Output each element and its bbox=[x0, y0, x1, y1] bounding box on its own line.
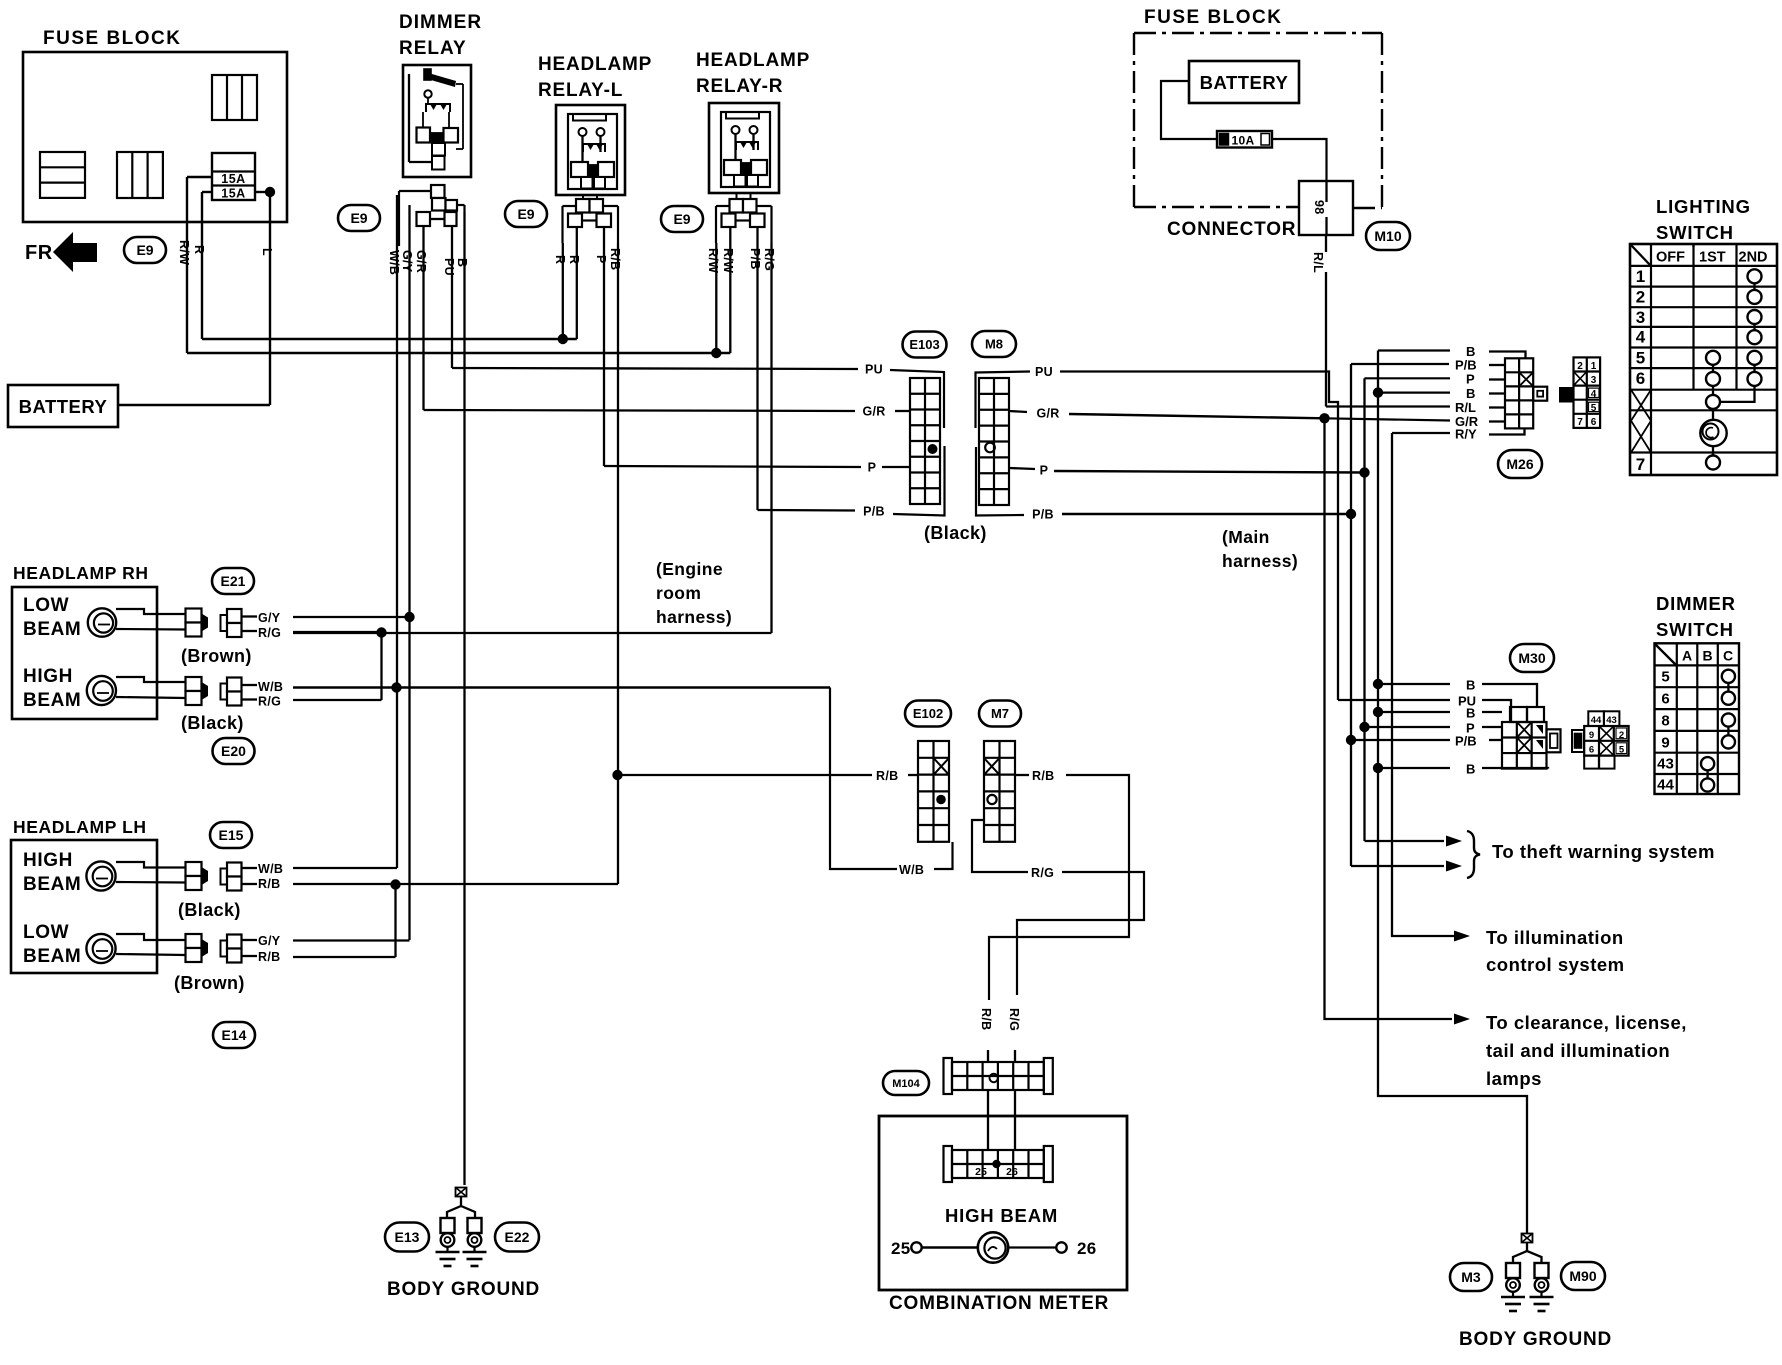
svg-text:W/B: W/B bbox=[899, 863, 924, 877]
connector E13 oval bbox=[385, 1223, 429, 1252]
connector LH low (Brown) bbox=[221, 935, 258, 963]
svg-text:R/B: R/B bbox=[979, 1008, 993, 1030]
svg-text:P: P bbox=[1466, 372, 1475, 387]
svg-text:(Black): (Black) bbox=[924, 523, 987, 543]
svg-text:6: 6 bbox=[1589, 745, 1594, 756]
svg-text:43: 43 bbox=[1657, 756, 1674, 773]
headlamp RH box bbox=[12, 587, 157, 719]
svg-text:E103: E103 bbox=[909, 337, 939, 352]
headlamp relay-R connector bbox=[716, 193, 772, 243]
connector E14 oval bbox=[213, 1022, 255, 1048]
svg-text:G/R: G/R bbox=[1036, 407, 1059, 421]
connector M6 grid bbox=[979, 378, 1009, 505]
connector M8 oval bbox=[972, 331, 1016, 357]
wire P/B vertical (M26 to theft warning) bbox=[1350, 364, 1352, 866]
svg-text:HEADLAMP: HEADLAMP bbox=[696, 50, 810, 71]
connector E103 oval bbox=[903, 332, 947, 358]
svg-text:control system: control system bbox=[1486, 954, 1625, 975]
lighting switch table bbox=[1630, 244, 1777, 475]
junction P/B 740 bbox=[1346, 735, 1356, 745]
wire R/G: M7 to combination meter bbox=[972, 820, 1144, 995]
svg-text:SWITCH: SWITCH bbox=[1656, 222, 1734, 243]
FR direction arrow bbox=[25, 232, 97, 272]
wire R/W: relay-R pin 1 bbox=[715, 243, 717, 353]
svg-text:To theft warning system: To theft warning system bbox=[1492, 841, 1715, 862]
M6 PU bracket bbox=[976, 372, 1031, 429]
M26 mating connector tab (black) bbox=[1560, 388, 1574, 402]
wire labels R R (relay-L) bbox=[553, 255, 581, 264]
svg-text:6: 6 bbox=[1591, 417, 1597, 428]
svg-text:DIMMER: DIMMER bbox=[399, 12, 482, 33]
bulb LH low beam bbox=[86, 934, 185, 963]
dimmer relay label bbox=[399, 12, 482, 59]
dimmer relay box bbox=[403, 65, 471, 177]
CONNECTOR label bbox=[1167, 219, 1296, 240]
svg-text:E14: E14 bbox=[222, 1027, 247, 1043]
lighting switch label bbox=[1656, 196, 1751, 243]
lighting switch row numbers bbox=[1636, 267, 1646, 474]
(Main harness) note bbox=[1222, 527, 1298, 571]
wire W/B LH high bbox=[293, 867, 397, 869]
svg-text:FUSE BLOCK: FUSE BLOCK bbox=[43, 28, 182, 49]
svg-text:A: A bbox=[1682, 648, 1692, 664]
wire P: M6 to M26/M30 bbox=[1054, 471, 1365, 473]
ground fork (right) bbox=[1513, 1251, 1542, 1263]
svg-text:To illumination: To illumination bbox=[1486, 927, 1624, 948]
M104 keyway circle bbox=[990, 1074, 998, 1082]
wire R/G: relay-R to headlamps bbox=[293, 243, 772, 633]
svg-text:R/L: R/L bbox=[1311, 252, 1325, 273]
(Brown) label RH bbox=[181, 646, 252, 666]
wire labels G/Y R/B (LH low) bbox=[258, 934, 281, 964]
wire G/R: M6 to M26 bbox=[1069, 414, 1325, 418]
M26 side tab bbox=[1533, 387, 1547, 401]
svg-text:HIGH BEAM: HIGH BEAM bbox=[945, 1205, 1058, 1226]
ground bolt right (E22 side) bbox=[463, 1218, 487, 1266]
svg-text:E9: E9 bbox=[136, 242, 153, 258]
connector E15 oval bbox=[210, 822, 252, 848]
svg-text:M104: M104 bbox=[892, 1078, 920, 1090]
junction R/G RH bbox=[376, 627, 386, 637]
dimmer switch row labels bbox=[1657, 669, 1674, 794]
wire R/B stub into E102 bbox=[908, 774, 918, 776]
(Black) label LH bbox=[178, 900, 241, 920]
svg-text:RELAY: RELAY bbox=[399, 38, 467, 59]
svg-text:P/B: P/B bbox=[1032, 508, 1054, 522]
ground fork (left) bbox=[447, 1206, 475, 1218]
svg-text:E9: E9 bbox=[517, 206, 534, 222]
svg-text:1: 1 bbox=[1636, 267, 1645, 286]
wire W/B: dimmer relay pin down bbox=[396, 195, 398, 868]
bulb RH low beam bbox=[88, 608, 185, 636]
headlamp LH high beam text bbox=[23, 850, 81, 895]
svg-text:R/G: R/G bbox=[258, 695, 281, 709]
wire to theft warning (from P/B) bbox=[1351, 861, 1462, 872]
svg-text:DIMMER: DIMMER bbox=[1656, 593, 1736, 614]
svg-text:B: B bbox=[1466, 706, 1475, 721]
connector E21 oval bbox=[212, 568, 254, 594]
dimmer switch contacts C bbox=[1722, 670, 1735, 749]
svg-text:BODY GROUND: BODY GROUND bbox=[387, 1279, 540, 1300]
svg-text:43: 43 bbox=[1606, 715, 1617, 726]
connector E22 oval bbox=[495, 1223, 539, 1252]
M6 P/B bracket bbox=[976, 447, 1024, 516]
svg-text:To clearance, license,: To clearance, license, bbox=[1486, 1012, 1687, 1033]
svg-text:3: 3 bbox=[1636, 308, 1645, 327]
wire label L bbox=[260, 248, 274, 256]
svg-text:G/Y: G/Y bbox=[258, 934, 281, 948]
svg-text:1: 1 bbox=[1591, 361, 1597, 372]
svg-text:2ND: 2ND bbox=[1739, 250, 1768, 266]
svg-text:(Brown): (Brown) bbox=[181, 646, 252, 666]
svg-text:(Black): (Black) bbox=[181, 713, 244, 733]
svg-text:PU: PU bbox=[442, 258, 456, 276]
headlamp relay-R box bbox=[709, 103, 779, 193]
svg-text:G/Y: G/Y bbox=[258, 611, 281, 625]
svg-text:(Main: (Main bbox=[1222, 527, 1270, 547]
wire G/R branch: to clearance lamps bbox=[1325, 418, 1453, 1019]
svg-text:B: B bbox=[1702, 648, 1712, 664]
svg-text:HEADLAMP: HEADLAMP bbox=[538, 54, 652, 75]
junction P 727 bbox=[1359, 722, 1369, 732]
wire P: relay-L to E103 bbox=[604, 228, 861, 467]
svg-text:C: C bbox=[1723, 648, 1733, 664]
wires into meter connector bbox=[988, 1090, 1015, 1150]
svg-text:M30: M30 bbox=[1518, 650, 1545, 666]
svg-text:P/B: P/B bbox=[1455, 734, 1477, 749]
wire label W/B (dimmer) bbox=[387, 250, 401, 275]
svg-text:R/W: R/W bbox=[177, 240, 191, 265]
svg-text:4: 4 bbox=[1636, 328, 1646, 347]
svg-text:44: 44 bbox=[1657, 777, 1674, 794]
svg-text:G/Y: G/Y bbox=[400, 250, 414, 273]
E103 PU bracket bbox=[890, 370, 944, 428]
svg-text:5: 5 bbox=[1636, 349, 1645, 368]
svg-text:3: 3 bbox=[1591, 375, 1597, 386]
dimmer relay connector bbox=[399, 185, 465, 246]
wire label P (relay-L) bbox=[594, 255, 608, 264]
fuse block (engine compartment) label bbox=[43, 28, 182, 49]
svg-text:P: P bbox=[594, 255, 608, 264]
svg-text:5: 5 bbox=[1661, 669, 1669, 686]
connector M26 grid bbox=[1505, 358, 1533, 428]
svg-text:15A: 15A bbox=[221, 187, 245, 201]
wire R/G into M104 bbox=[1014, 1050, 1016, 1062]
svg-text:P/B: P/B bbox=[863, 505, 885, 519]
wire label PU (dimmer) bbox=[442, 258, 456, 276]
wire B (row1) to M26 bbox=[1378, 344, 1526, 359]
svg-text:LOW: LOW bbox=[23, 595, 69, 616]
wire B vertical (M26 to body ground) bbox=[1378, 351, 1527, 1234]
svg-text:R/L: R/L bbox=[1455, 400, 1476, 415]
svg-text:44: 44 bbox=[1591, 715, 1602, 726]
ground bolt (M90 side) bbox=[1530, 1263, 1554, 1311]
fuse symbol (3-slot, middle) bbox=[117, 152, 163, 198]
wire label P (E103) bbox=[866, 459, 910, 474]
wire R/B LH high (to relay R/B) bbox=[293, 883, 618, 885]
connector E102 grid bbox=[918, 741, 949, 842]
svg-text:B: B bbox=[455, 258, 469, 267]
svg-text:RELAY-R: RELAY-R bbox=[696, 76, 783, 97]
svg-text:BATTERY: BATTERY bbox=[19, 396, 108, 417]
wire R/L: connector to M26 bbox=[1326, 235, 1450, 407]
connector E102 oval bbox=[905, 701, 951, 727]
junction P at M6 row bbox=[1359, 467, 1369, 477]
svg-text:7: 7 bbox=[1636, 455, 1645, 474]
svg-text:L: L bbox=[260, 248, 274, 256]
svg-text:R/B: R/B bbox=[608, 248, 622, 270]
svg-text:R/Y: R/Y bbox=[1455, 427, 1477, 442]
svg-text:7: 7 bbox=[1577, 417, 1583, 428]
connector E103 grid bbox=[910, 378, 940, 504]
wire label R/G (meter) bbox=[1007, 1008, 1021, 1031]
svg-text:8: 8 bbox=[1661, 713, 1669, 730]
svg-text:P/B: P/B bbox=[748, 248, 762, 270]
headlamp LH box bbox=[11, 840, 157, 973]
socket LH high bbox=[186, 862, 209, 890]
wire W/B into E102 bbox=[934, 842, 953, 869]
svg-text:R: R bbox=[553, 255, 567, 264]
svg-text:R/B: R/B bbox=[1032, 769, 1054, 783]
svg-text:harness): harness) bbox=[1222, 551, 1298, 571]
wire P to M26 bbox=[1365, 372, 1506, 387]
combination meter box bbox=[879, 1116, 1127, 1290]
fuse symbol (3-row, left) bbox=[40, 152, 85, 198]
svg-text:BEAM: BEAM bbox=[23, 619, 81, 640]
wire labels W/B R/B (LH high) bbox=[258, 862, 283, 891]
bulb LH high beam bbox=[86, 861, 185, 890]
junction G/R branch bbox=[1319, 413, 1329, 423]
wire stub fuse to L node bbox=[255, 191, 270, 193]
wire P/B to M30 bbox=[1351, 734, 1502, 749]
headlamp relay-L connector bbox=[563, 195, 619, 243]
fuse 15A / 15A bbox=[212, 153, 255, 201]
wire G/Y RH low bbox=[293, 616, 410, 618]
high beam indicator lamp bbox=[891, 1232, 1097, 1262]
M26 X key bbox=[1519, 372, 1533, 386]
meter connector pins 25 26 bbox=[975, 1160, 1018, 1178]
svg-text:M7: M7 bbox=[991, 706, 1009, 721]
svg-text:R: R bbox=[567, 255, 581, 264]
wire R/Y vertical (M26 to illumination) bbox=[1392, 433, 1456, 936]
wire R/W: fuse to headlamp relay-R bbox=[187, 177, 730, 353]
svg-text:BEAM: BEAM bbox=[23, 690, 81, 711]
wire R/G RH high branch bbox=[293, 632, 382, 700]
connector E20 oval bbox=[213, 738, 255, 764]
svg-text:HEADLAMP RH: HEADLAMP RH bbox=[13, 563, 149, 583]
fuse block (cabin) label bbox=[1144, 7, 1283, 28]
(Brown) label LH bbox=[174, 973, 245, 993]
svg-text:M26: M26 bbox=[1506, 456, 1533, 472]
E102 keyway dot bbox=[936, 795, 946, 805]
wire PU to M30 bbox=[1338, 694, 1511, 723]
svg-text:R: R bbox=[192, 245, 206, 254]
wire B to M30 (row B 684) bbox=[1378, 678, 1537, 708]
svg-text:BEAM: BEAM bbox=[23, 946, 81, 967]
wire label P/B (M6) bbox=[1029, 506, 1056, 521]
svg-text:(Brown): (Brown) bbox=[174, 973, 245, 993]
svg-text:HIGH: HIGH bbox=[23, 850, 73, 871]
wire labels W/B R/G (RH high) bbox=[258, 680, 283, 709]
wire label R/B (meter) bbox=[979, 1008, 993, 1030]
svg-text:9: 9 bbox=[1589, 730, 1594, 741]
svg-text:R/B: R/B bbox=[258, 877, 280, 891]
HIGH BEAM label bbox=[945, 1205, 1058, 1226]
svg-text:98: 98 bbox=[1312, 200, 1326, 215]
svg-text:OFF: OFF bbox=[1656, 250, 1685, 266]
svg-text:E102: E102 bbox=[913, 706, 943, 721]
wire R/B LH low branch bbox=[293, 885, 396, 958]
wire P vertical (M26 to theft warning) bbox=[1363, 378, 1365, 841]
wire label PU (M6) bbox=[1034, 364, 1054, 379]
svg-text:9: 9 bbox=[1661, 735, 1669, 752]
junction: R at relay-L bbox=[558, 334, 568, 344]
svg-text:BODY GROUND: BODY GROUND bbox=[1459, 1329, 1612, 1350]
svg-text:E13: E13 bbox=[395, 1229, 420, 1245]
svg-text:W/B: W/B bbox=[387, 250, 401, 275]
connector M30 oval bbox=[1510, 644, 1554, 672]
M26 mating connector grid bbox=[1574, 357, 1601, 428]
wire label B (dimmer) bbox=[455, 258, 469, 267]
wire B to M30 (row B 768) bbox=[1378, 762, 1548, 777]
svg-text:(Engine: (Engine bbox=[656, 559, 723, 579]
wire R/G RH low (to main R/G) bbox=[293, 631, 382, 633]
wire P to M30 bbox=[1365, 721, 1503, 736]
connector RH low (Brown) bbox=[221, 609, 258, 637]
E103 keyway dot bbox=[928, 444, 938, 454]
junction B 712 bbox=[1373, 707, 1383, 717]
svg-text:SWITCH: SWITCH bbox=[1656, 619, 1734, 640]
wire label R/B (E102) bbox=[876, 769, 898, 783]
svg-text:26: 26 bbox=[1006, 1166, 1018, 1178]
svg-text:M8: M8 bbox=[985, 337, 1003, 352]
connector M7 oval bbox=[979, 701, 1021, 727]
BODY GROUND label (right) bbox=[1459, 1329, 1612, 1350]
connector M26 oval bbox=[1498, 450, 1542, 478]
wire label R (fuse) bbox=[192, 245, 206, 254]
svg-text:HIGH: HIGH bbox=[23, 666, 73, 687]
connector E9 oval (relay-L) bbox=[505, 201, 547, 227]
svg-text:harness): harness) bbox=[656, 607, 732, 627]
svg-text:R/G: R/G bbox=[1031, 866, 1054, 880]
M7 X key bbox=[984, 758, 1000, 775]
svg-text:R/W: R/W bbox=[721, 248, 735, 273]
wire label P/B (relay-R) bbox=[748, 248, 762, 270]
ground bolt (M3 side) bbox=[1501, 1263, 1525, 1311]
connector M104 grid bbox=[944, 1058, 1053, 1094]
junction B 684 bbox=[1373, 679, 1383, 689]
wire L: battery to fuse block bbox=[118, 192, 270, 405]
wire R: fuse to headlamp relay-L bbox=[202, 192, 577, 339]
svg-text:25: 25 bbox=[891, 1239, 911, 1258]
dimmer switch contacts B bbox=[1701, 757, 1714, 792]
svg-text:E15: E15 bbox=[219, 827, 244, 843]
wire R/B into M104 bbox=[987, 1050, 989, 1062]
wire R: relay-L pin 2 bbox=[576, 228, 578, 339]
E102 X key bbox=[934, 758, 950, 775]
bulb RH high beam bbox=[87, 676, 185, 705]
wire G/Y: dimmer relay pin down bbox=[408, 205, 410, 940]
connector E9 oval (relay-R) bbox=[661, 206, 703, 232]
connector LH high (Black) bbox=[221, 863, 258, 891]
svg-text:E22: E22 bbox=[505, 1229, 530, 1245]
wire label P/B (E103) bbox=[860, 503, 887, 518]
svg-text:R/G: R/G bbox=[258, 626, 281, 640]
wire R/Y to M26 bbox=[1392, 427, 1525, 442]
junction R/B LH bbox=[390, 879, 400, 889]
junction W/B bbox=[391, 682, 401, 692]
svg-text:R/B: R/B bbox=[258, 950, 280, 964]
dimmer switch table bbox=[1655, 643, 1740, 794]
lighting switch contacts 1ST bbox=[1700, 351, 1726, 470]
headlamp LH low beam text bbox=[23, 922, 81, 967]
svg-text:lamps: lamps bbox=[1486, 1068, 1542, 1089]
junction: R/W at relay-R bbox=[711, 348, 721, 358]
svg-text:10A: 10A bbox=[1232, 134, 1255, 148]
connector E9 oval (dimmer relay) bbox=[338, 205, 380, 231]
wire label R/W (fuse) bbox=[177, 240, 191, 265]
brace and To theft warning system text bbox=[1467, 831, 1715, 878]
svg-text:room: room bbox=[656, 583, 701, 603]
headlamp relay-L label bbox=[538, 54, 652, 101]
svg-text:FUSE BLOCK: FUSE BLOCK bbox=[1144, 7, 1283, 28]
wire label PU (E103) bbox=[864, 361, 884, 376]
headlamp relay-L box bbox=[556, 105, 625, 195]
To clearance license tail lamps bbox=[1454, 1012, 1687, 1089]
svg-text:G/R: G/R bbox=[414, 250, 428, 273]
wire W/B RH high (to E102) bbox=[293, 686, 830, 688]
svg-text:RELAY-L: RELAY-L bbox=[538, 80, 623, 101]
svg-text:LOW: LOW bbox=[23, 922, 69, 943]
connector M90 oval bbox=[1561, 1262, 1605, 1290]
fuse 10A bbox=[1217, 131, 1272, 148]
svg-text:B: B bbox=[1466, 762, 1475, 777]
svg-text:E21: E21 bbox=[221, 573, 246, 589]
svg-text:2: 2 bbox=[1577, 361, 1583, 372]
wire label R/B (relay-L) bbox=[608, 248, 622, 270]
M30 mating connector bbox=[1572, 711, 1629, 768]
svg-text:W/B: W/B bbox=[258, 862, 283, 876]
connector M7 grid bbox=[984, 741, 1015, 842]
svg-text:R/W: R/W bbox=[706, 248, 720, 273]
wire label R/L (M26) bbox=[1455, 400, 1505, 415]
svg-text:E20: E20 bbox=[221, 743, 246, 759]
wire battery to fuse 10A bbox=[1161, 81, 1217, 139]
wire PU: M6 to M30 (main harness) bbox=[1060, 372, 1338, 701]
wire R/B: M7 to combination meter bbox=[989, 769, 1129, 1000]
(Engine room harness) note bbox=[656, 559, 732, 627]
meter connector grid bbox=[944, 1146, 1053, 1182]
svg-text:M90: M90 bbox=[1569, 1268, 1596, 1284]
junction B 768 bbox=[1373, 763, 1383, 773]
battery (fuse block) bbox=[1189, 61, 1299, 103]
svg-text:2: 2 bbox=[1636, 288, 1645, 307]
svg-text:1ST: 1ST bbox=[1699, 250, 1726, 266]
svg-text:P: P bbox=[1040, 464, 1049, 478]
fuse block dash-dot box bbox=[1134, 33, 1382, 208]
socket RH high bbox=[186, 677, 209, 705]
svg-text:B: B bbox=[1466, 678, 1475, 693]
wire label W/B (E102) bbox=[899, 863, 924, 877]
headlamp relay-R label bbox=[696, 50, 810, 97]
wire W/B drop to E102 bbox=[830, 688, 897, 870]
connector M10 oval bbox=[1366, 222, 1410, 250]
svg-text:BATTERY: BATTERY bbox=[1200, 72, 1289, 93]
svg-text:W/B: W/B bbox=[258, 680, 283, 694]
socket LH low bbox=[186, 934, 209, 962]
svg-text:R/G: R/G bbox=[1007, 1008, 1021, 1031]
connector M30 block bbox=[1502, 707, 1561, 769]
